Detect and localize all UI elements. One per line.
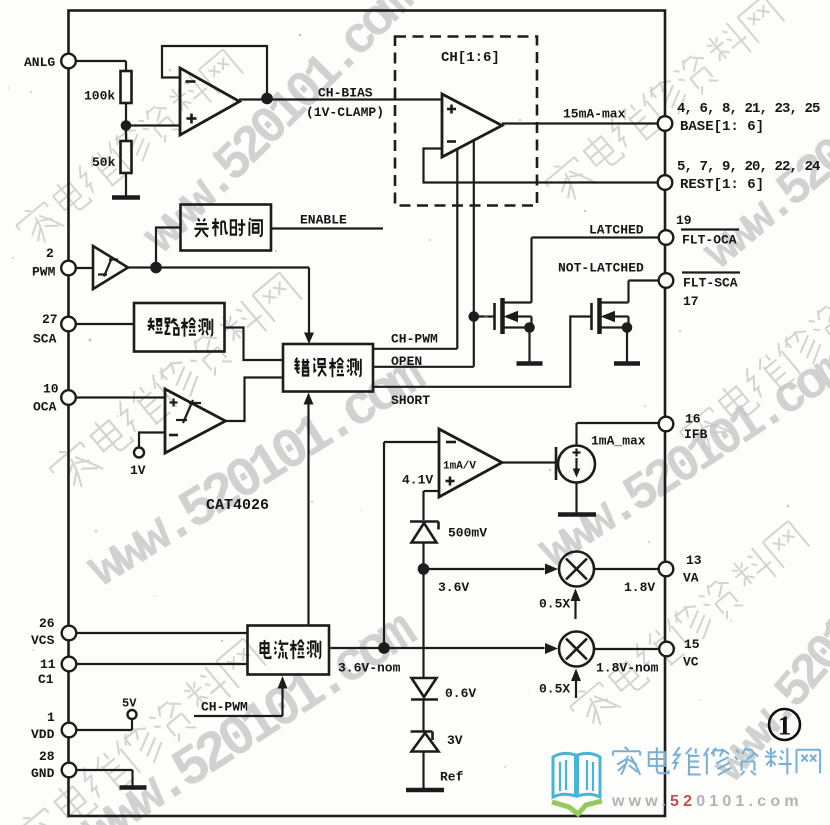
svg-text:50k: 50k: [92, 155, 116, 170]
svg-text:REST[1: 6]: REST[1: 6]: [680, 177, 764, 193]
svg-text:LATCHED: LATCHED: [589, 223, 644, 238]
svg-text:CAT4026: CAT4026: [206, 497, 269, 514]
svg-text:CH-PWM: CH-PWM: [391, 332, 438, 347]
svg-text:27: 27: [42, 312, 58, 327]
svg-text:FLT-OCA: FLT-OCA: [682, 233, 737, 248]
svg-text:5V: 5V: [122, 697, 137, 711]
svg-text:(1V-CLAMP): (1V-CLAMP): [306, 105, 384, 120]
svg-text:PWM: PWM: [32, 265, 56, 280]
svg-text:10: 10: [43, 382, 59, 397]
svg-text:3V: 3V: [447, 733, 463, 748]
svg-text:CH-BIAS: CH-BIAS: [318, 86, 373, 101]
svg-text:28: 28: [39, 749, 55, 764]
svg-text:11: 11: [40, 657, 56, 672]
svg-text:16: 16: [685, 412, 701, 427]
svg-text:0.5X: 0.5X: [539, 682, 570, 697]
svg-text:C1: C1: [38, 672, 54, 687]
svg-text:19: 19: [676, 213, 692, 228]
svg-text:15mA-max: 15mA-max: [563, 107, 626, 122]
svg-text:VA: VA: [683, 571, 699, 586]
svg-text:VCS: VCS: [31, 633, 55, 648]
svg-text:0.6V: 0.6V: [445, 686, 476, 701]
svg-text:1mA_max: 1mA_max: [591, 434, 646, 449]
svg-text:500mV: 500mV: [448, 526, 487, 541]
svg-text:BASE[1: 6]: BASE[1: 6]: [680, 119, 764, 135]
svg-text:26: 26: [39, 616, 55, 631]
svg-text:2: 2: [46, 246, 54, 261]
svg-text:GND: GND: [31, 766, 55, 781]
svg-text:1: 1: [47, 710, 55, 725]
svg-text:Ref: Ref: [440, 770, 464, 785]
svg-text:www.520101.com: www.520101.com: [611, 793, 803, 810]
svg-text:OPEN: OPEN: [391, 354, 422, 369]
svg-text:FLT-SCA: FLT-SCA: [683, 276, 738, 291]
svg-text:1.8V: 1.8V: [624, 580, 655, 595]
svg-text:1: 1: [778, 711, 792, 741]
svg-text:SCA: SCA: [33, 332, 57, 347]
svg-text:IFB: IFB: [684, 427, 708, 442]
svg-text:VC: VC: [683, 655, 699, 670]
svg-text:CH-PWM: CH-PWM: [201, 700, 248, 715]
svg-text:CH[1:6]: CH[1:6]: [441, 50, 500, 66]
svg-text:3.6V: 3.6V: [438, 580, 469, 595]
svg-text:100k: 100k: [84, 89, 115, 104]
svg-text:0.5X: 0.5X: [539, 597, 570, 612]
svg-text:1V: 1V: [130, 463, 146, 478]
svg-text:NOT-LATCHED: NOT-LATCHED: [558, 261, 644, 276]
svg-text:OCA: OCA: [33, 400, 57, 415]
svg-text:1mA/V: 1mA/V: [443, 461, 476, 473]
svg-text:SHORT: SHORT: [391, 393, 430, 408]
svg-text:VDD: VDD: [31, 727, 55, 742]
svg-text:3.6V-nom: 3.6V-nom: [338, 661, 401, 676]
svg-text:1.8V-nom: 1.8V-nom: [596, 661, 659, 676]
svg-text:15: 15: [684, 637, 700, 652]
svg-text:4, 6, 8, 21, 23, 25: 4, 6, 8, 21, 23, 25: [677, 101, 820, 117]
svg-text:ENABLE: ENABLE: [300, 213, 347, 228]
svg-text:17: 17: [683, 294, 699, 309]
svg-text:5, 7, 9, 20, 22, 24: 5, 7, 9, 20, 22, 24: [677, 159, 820, 175]
svg-text:13: 13: [686, 553, 702, 568]
svg-text:4.1V: 4.1V: [402, 473, 433, 488]
svg-text:ANLG: ANLG: [24, 55, 55, 70]
